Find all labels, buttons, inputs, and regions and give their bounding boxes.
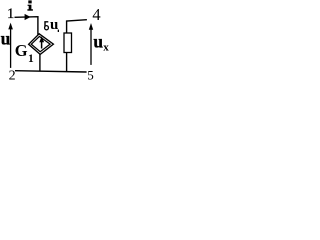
svg-text:4: 4 <box>92 5 100 24</box>
comma after value <box>58 30 59 32</box>
source value label delta glyph <box>45 22 48 27</box>
resistor R <box>64 33 72 53</box>
svg-text:2: 2 <box>9 69 16 81</box>
svg-text:x: x <box>103 41 109 53</box>
current arrow i head <box>25 14 31 20</box>
controlled source G1 inner diamond <box>31 36 50 51</box>
bottom wire <box>15 71 87 72</box>
svg-text:G: G <box>15 41 28 60</box>
svg-text:1: 1 <box>28 53 34 65</box>
voltage arrow u (left) <box>10 28 12 68</box>
wire from node 1 to controlled source top <box>15 17 38 35</box>
voltage arrow ux (right) <box>90 28 92 65</box>
controlled source G1 outer diamond <box>29 34 54 55</box>
label i <box>27 0 33 10</box>
controlled source arrow <box>41 42 43 49</box>
svg-text:5: 5 <box>87 68 94 81</box>
wire resistor top to terminal 4 <box>67 20 87 33</box>
svg-text:u: u <box>93 32 103 52</box>
svg-text:u: u <box>50 17 58 33</box>
svg-text:u: u <box>1 28 11 48</box>
svg-text:1: 1 <box>7 6 14 22</box>
wire controlled source bottom stem <box>39 54 41 71</box>
wire resistor bottom <box>66 53 68 73</box>
